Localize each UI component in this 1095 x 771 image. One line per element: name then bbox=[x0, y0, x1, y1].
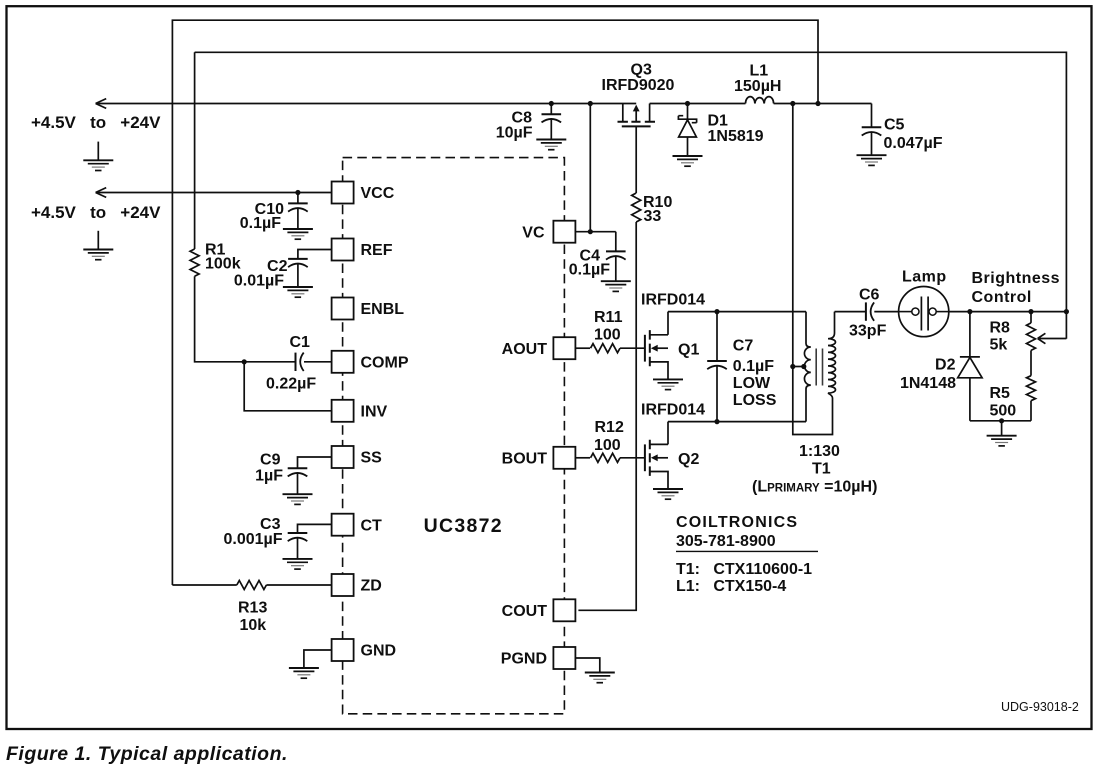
wire SS to C9 bbox=[298, 457, 332, 468]
svg-text:305-781-8900: 305-781-8900 bbox=[676, 533, 776, 550]
wire ZD sense net bbox=[172, 20, 818, 585]
svg-text:33: 33 bbox=[644, 208, 662, 225]
svg-text:R5: R5 bbox=[990, 385, 1011, 402]
wire Q2 drain riser bbox=[667, 422, 669, 445]
svg-text:100k: 100k bbox=[205, 256, 241, 273]
wire ground stem bbox=[1001, 421, 1003, 436]
svg-text:10k: 10k bbox=[240, 617, 267, 634]
wire GND pin bbox=[304, 650, 332, 668]
ground (C5) bbox=[857, 155, 887, 165]
wire C1 to COMP bbox=[304, 361, 332, 363]
wire C7 bottom stub bbox=[716, 365, 718, 421]
svg-text:ENBL: ENBL bbox=[361, 301, 405, 318]
wire C8 to ground bbox=[550, 118, 552, 139]
pin GND bbox=[332, 639, 354, 661]
ground (supply 2) bbox=[83, 250, 113, 260]
pin AOUT bbox=[553, 337, 575, 359]
wire R8-R5 bbox=[1030, 350, 1032, 375]
wire AOUT bbox=[575, 347, 590, 349]
capacitor C2 bbox=[288, 259, 308, 267]
junction feedback bbox=[1064, 309, 1069, 314]
svg-text:IRFD014: IRFD014 bbox=[641, 402, 705, 419]
wire C3 to ground bbox=[297, 537, 299, 559]
ground (D1) bbox=[673, 156, 703, 166]
wire VCC input bbox=[96, 192, 332, 194]
svg-text:IRFD9020: IRFD9020 bbox=[602, 77, 675, 94]
capacitor C8 bbox=[542, 114, 562, 122]
svg-text:AOUT: AOUT bbox=[502, 341, 548, 358]
svg-text:C6: C6 bbox=[859, 287, 880, 304]
pin CT bbox=[332, 514, 354, 536]
wire C10 to ground bbox=[297, 208, 299, 229]
ground (D2/R5) bbox=[987, 436, 1017, 446]
wire Q3 gate lead bbox=[635, 126, 637, 193]
pin ZD bbox=[332, 574, 354, 596]
svg-text:33pF: 33pF bbox=[849, 323, 887, 340]
inductor L1 bbox=[746, 97, 774, 104]
wire C6 to lamp bbox=[874, 311, 898, 313]
wire primary top rail bbox=[668, 311, 806, 313]
svg-text:1N5819: 1N5819 bbox=[708, 128, 764, 145]
wire to INV bbox=[244, 362, 331, 411]
svg-text:0.01µF: 0.01µF bbox=[234, 273, 284, 290]
capacitor C3 bbox=[288, 533, 308, 541]
svg-text:Control: Control bbox=[972, 289, 1032, 306]
transistor Q3 IRFD9020 bbox=[618, 104, 656, 127]
wire C7 top stub bbox=[716, 312, 718, 361]
input arrow 2 bbox=[96, 188, 107, 198]
wire ground stem 1 bbox=[97, 142, 99, 161]
wire R12 to Q2 gate bbox=[620, 457, 645, 459]
wire VC riser bbox=[589, 104, 591, 232]
junction C7 bottom bbox=[714, 419, 719, 424]
wire D2-R5 bottom bbox=[970, 420, 1031, 422]
svg-text:COILTRONICS: COILTRONICS bbox=[676, 514, 798, 531]
svg-text:COUT: COUT bbox=[502, 603, 548, 620]
caption bbox=[6, 743, 288, 766]
resistor R13 bbox=[237, 581, 267, 590]
junction wire A / rail bbox=[815, 101, 820, 106]
svg-text:Q3: Q3 bbox=[631, 62, 652, 79]
svg-text:0.001µF: 0.001µF bbox=[223, 531, 282, 548]
wire supply rail right bbox=[774, 103, 872, 105]
svg-text:ZD: ZD bbox=[361, 578, 382, 595]
wire center tap riser / secondary return bbox=[793, 104, 833, 435]
svg-text:R12: R12 bbox=[595, 419, 624, 436]
svg-text:D1: D1 bbox=[708, 113, 729, 130]
ground (GND pin) bbox=[289, 668, 319, 678]
resistor R12 bbox=[591, 453, 621, 462]
capacitor C9 bbox=[288, 468, 308, 476]
svg-text:C5: C5 bbox=[884, 117, 905, 134]
wire supply rail mid bbox=[650, 103, 746, 105]
transformer T1 primary winding bbox=[804, 312, 810, 422]
capacitor C7 bbox=[707, 361, 727, 369]
diode D1 1N5819 bbox=[678, 104, 696, 157]
junction tap 2 bbox=[801, 364, 806, 369]
wiper arrow R8 bbox=[1038, 333, 1067, 343]
svg-text:VCC: VCC bbox=[361, 185, 395, 202]
wire R5 bottom bbox=[1030, 401, 1032, 421]
svg-text:R13: R13 bbox=[238, 600, 267, 617]
svg-text:1N4148: 1N4148 bbox=[900, 375, 956, 392]
svg-text:INV: INV bbox=[361, 404, 388, 421]
ground (C4) bbox=[601, 281, 631, 291]
svg-text:PGND: PGND bbox=[501, 651, 547, 668]
ground (PGND) bbox=[585, 673, 615, 683]
wire R10 to COUT bbox=[578, 222, 636, 610]
ground (C9) bbox=[283, 494, 313, 504]
svg-text:500: 500 bbox=[990, 403, 1017, 420]
wire Q1 drain riser bbox=[667, 312, 669, 335]
wire CT to C3 bbox=[298, 524, 332, 533]
transistor Q1 IRFD014 bbox=[645, 330, 668, 379]
svg-text:R8: R8 bbox=[990, 320, 1011, 337]
svg-text:150µH: 150µH bbox=[734, 78, 781, 95]
svg-text:1µF: 1µF bbox=[255, 468, 283, 485]
pin INV bbox=[332, 400, 354, 422]
svg-text:10µF: 10µF bbox=[496, 125, 533, 142]
svg-text:GND: GND bbox=[361, 643, 397, 660]
wire R13 left bbox=[172, 584, 236, 586]
pin VCC bbox=[332, 182, 354, 204]
svg-text:T1: CTX110600-1: T1: CTX110600-1 bbox=[676, 561, 812, 578]
pin ENBL bbox=[332, 298, 354, 320]
IC UC3872 dashed outline bbox=[343, 158, 565, 714]
wire R13 to ZD bbox=[266, 584, 331, 586]
input arrow 1 bbox=[96, 99, 107, 109]
svg-text:SS: SS bbox=[361, 450, 383, 467]
wire VC to C4 bbox=[575, 231, 615, 233]
junction bottom ground bbox=[999, 418, 1004, 423]
svg-text:L1: L1 bbox=[750, 63, 769, 80]
svg-text:100: 100 bbox=[594, 327, 621, 344]
wire R8 top bbox=[1030, 312, 1032, 323]
svg-text:UDG-93018-2: UDG-93018-2 bbox=[1001, 700, 1079, 714]
ground (C3) bbox=[283, 559, 313, 569]
capacitor C5 bbox=[862, 127, 882, 135]
ground (supply 1) bbox=[83, 160, 113, 170]
svg-text:CT: CT bbox=[361, 517, 383, 534]
svg-text:BOUT: BOUT bbox=[502, 451, 548, 468]
wire C4 to ground bbox=[615, 256, 617, 282]
junction VCC/C10 bbox=[295, 190, 300, 195]
svg-text:0.22µF: 0.22µF bbox=[266, 376, 316, 393]
svg-text:0.047µF: 0.047µF bbox=[884, 135, 943, 152]
pin VC bbox=[553, 221, 575, 243]
resistor R5 bbox=[1027, 376, 1036, 401]
svg-text:UC3872: UC3872 bbox=[424, 515, 503, 537]
junction VC bbox=[588, 229, 593, 234]
junction VC riser bbox=[588, 101, 593, 106]
pin PGND bbox=[553, 647, 575, 669]
svg-text:Lamp: Lamp bbox=[902, 269, 947, 286]
resistor R8 (pot) bbox=[1027, 323, 1036, 351]
resistor R1 bbox=[190, 249, 199, 276]
svg-text:REF: REF bbox=[361, 242, 393, 259]
wire C5 stub bbox=[871, 104, 873, 128]
pin BOUT bbox=[553, 447, 575, 469]
wire C2 to ground bbox=[297, 263, 299, 287]
separator line bbox=[676, 550, 818, 552]
transistor Q2 IRFD014 bbox=[645, 440, 668, 489]
pin REF bbox=[332, 239, 354, 261]
ground (C10) bbox=[283, 229, 313, 239]
svg-text:+4.5V to +24V: +4.5V to +24V bbox=[31, 203, 161, 222]
svg-text:0.1µF: 0.1µF bbox=[733, 358, 774, 375]
resistor R10 bbox=[632, 193, 641, 222]
svg-text:COMP: COMP bbox=[361, 355, 409, 372]
junction R8 bbox=[1028, 309, 1033, 314]
svg-text:L1: CTX150-4: L1: CTX150-4 bbox=[676, 578, 786, 595]
wire C5 to ground bbox=[871, 132, 873, 156]
junction C7 top bbox=[714, 309, 719, 314]
junction tap riser top bbox=[790, 101, 795, 106]
capacitor C4 bbox=[606, 251, 626, 259]
ground (C2) bbox=[283, 287, 313, 297]
lamp bbox=[899, 287, 949, 337]
junction tap 1 bbox=[790, 364, 795, 369]
svg-text:R11: R11 bbox=[594, 309, 623, 326]
svg-text:0.1µF: 0.1µF bbox=[569, 262, 610, 279]
capacitor C1 bbox=[296, 353, 304, 371]
ground (C8) bbox=[536, 140, 566, 150]
svg-text:5k: 5k bbox=[990, 337, 1008, 354]
junction D1 bbox=[685, 101, 690, 106]
junction D2 bbox=[967, 309, 972, 314]
wire lamp to brightness node bbox=[949, 311, 1067, 313]
junction C8 bbox=[549, 101, 554, 106]
svg-text:T1: T1 bbox=[812, 461, 831, 478]
wire C4 stub bbox=[615, 232, 617, 252]
ground (Q2) bbox=[653, 489, 683, 499]
wire C8 stub bbox=[550, 104, 552, 115]
svg-text:D2: D2 bbox=[935, 357, 956, 374]
resistor R11 bbox=[591, 344, 621, 353]
pin COUT bbox=[553, 599, 575, 621]
transformer T1 core bbox=[816, 349, 822, 386]
wire supply rail left bbox=[96, 103, 637, 105]
svg-text:VC: VC bbox=[522, 224, 545, 241]
svg-text:100: 100 bbox=[594, 437, 621, 454]
svg-text:C9: C9 bbox=[260, 452, 281, 469]
svg-text:C1: C1 bbox=[290, 334, 311, 351]
wire ground stem 2 bbox=[97, 231, 99, 250]
wire BOUT bbox=[575, 457, 590, 459]
wire PGND bbox=[575, 658, 599, 673]
wire R1 bottom to C1 bbox=[195, 276, 296, 362]
transformer T1 secondary winding bbox=[828, 312, 836, 398]
svg-text:1:130: 1:130 bbox=[799, 443, 840, 460]
wire R1 top bbox=[194, 52, 196, 249]
svg-text:0.1µF: 0.1µF bbox=[240, 215, 281, 232]
wire C9 to ground bbox=[297, 472, 299, 494]
svg-text:C7: C7 bbox=[733, 338, 754, 355]
svg-text:Q2: Q2 bbox=[678, 451, 699, 468]
pin COMP bbox=[332, 351, 354, 373]
pin SS bbox=[332, 446, 354, 468]
svg-text:+4.5V to +24V: +4.5V to +24V bbox=[31, 113, 161, 132]
capacitor C10 bbox=[288, 203, 308, 211]
wire R11 to Q1 gate bbox=[620, 347, 645, 349]
wire primary bottom rail bbox=[668, 421, 806, 423]
svg-text:LOW: LOW bbox=[733, 375, 771, 392]
junction C1/INV bbox=[242, 359, 247, 364]
svg-text:IRFD014: IRFD014 bbox=[641, 292, 705, 309]
wire secondary to C6 bbox=[835, 311, 866, 313]
capacitor C6 bbox=[866, 302, 874, 320]
svg-text:Brightness: Brightness bbox=[972, 270, 1061, 287]
wire center tap bbox=[793, 366, 805, 368]
wire C10 stub bbox=[297, 193, 299, 204]
ground (Q1) bbox=[653, 379, 683, 389]
wire REF to C2 bbox=[298, 250, 332, 259]
wire feedback net bbox=[195, 52, 1067, 339]
svg-text:Q1: Q1 bbox=[678, 342, 699, 359]
diode D2 1N4148 bbox=[958, 312, 982, 421]
svg-text:LOSS: LOSS bbox=[733, 392, 777, 409]
